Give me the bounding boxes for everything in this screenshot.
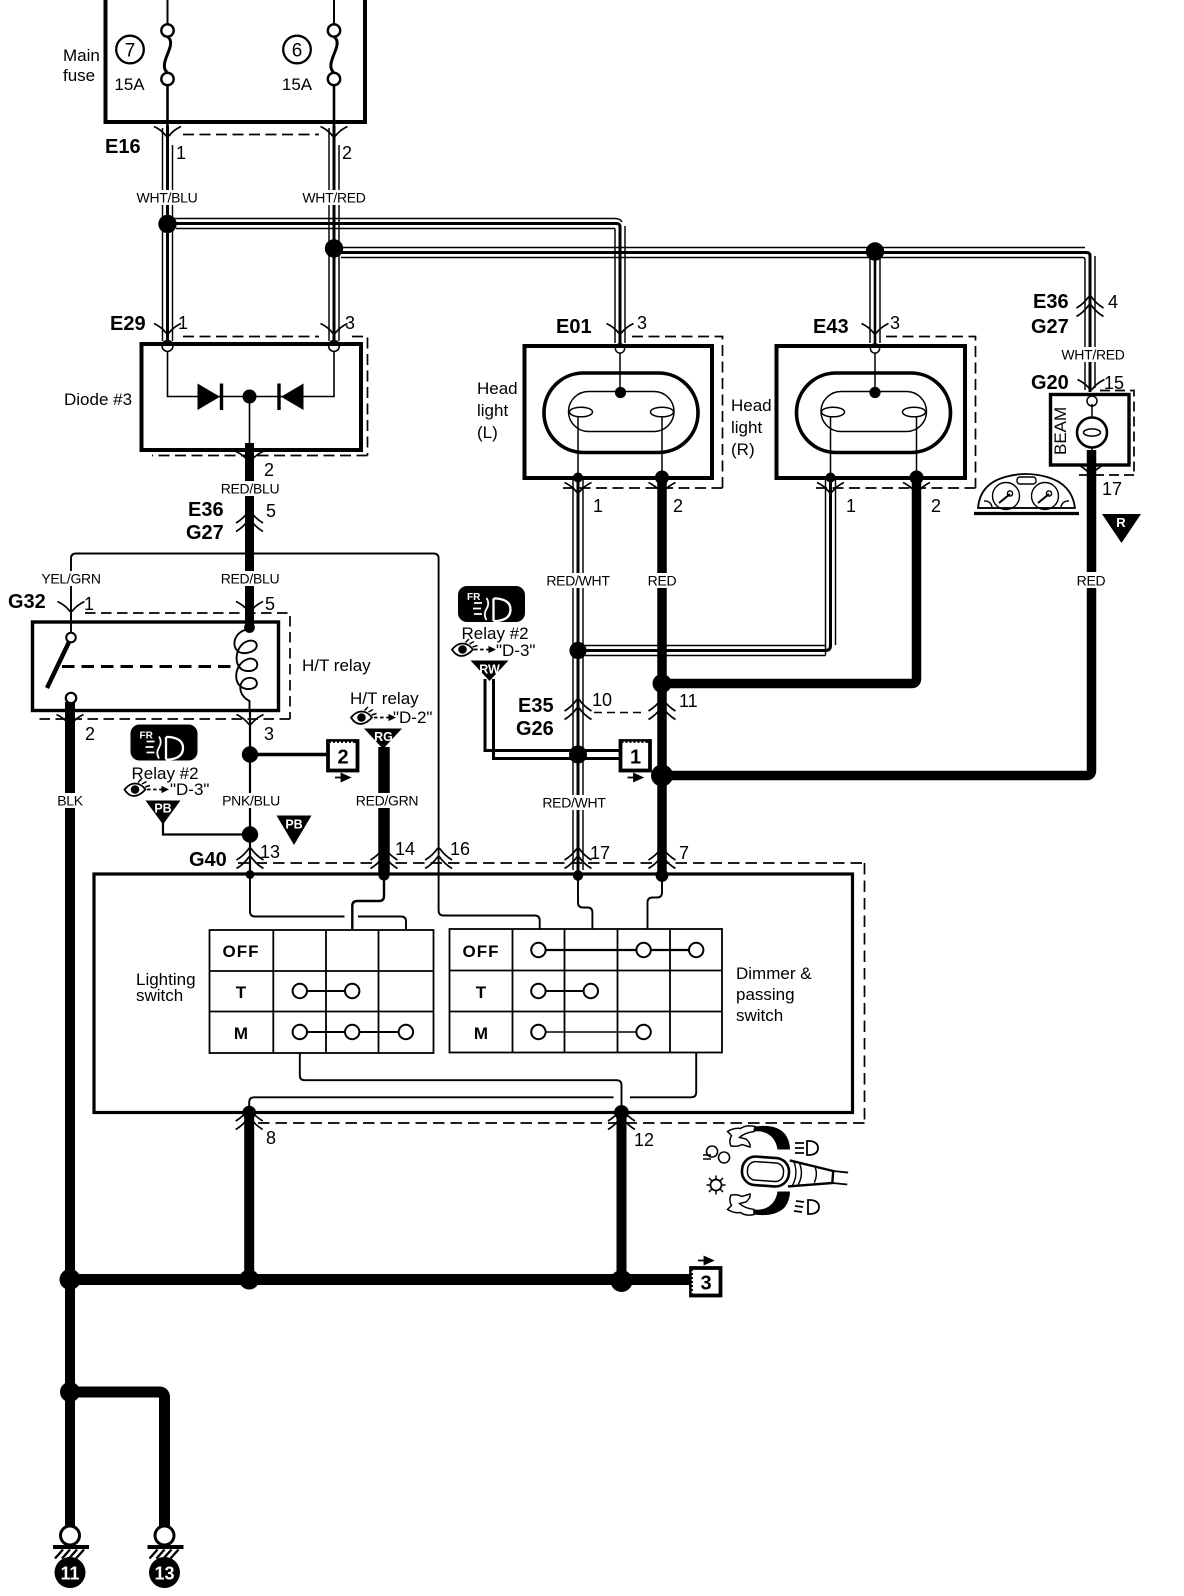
ground branch junction [60,1382,80,1402]
svg-text:1: 1 [178,313,188,333]
diode center junction [243,390,257,404]
svg-text:2: 2 [264,460,274,480]
svg-text:1: 1 [593,496,603,516]
wire WHT/RED vertical E16-2 to E29-3 [329,126,339,344]
svg-text:RW: RW [479,663,500,677]
svg-text:5: 5 [266,501,276,521]
relay coil [234,622,257,709]
svg-text:"D-3": "D-3" [170,780,209,799]
diode D1 [198,384,222,411]
svg-text:RED: RED [1077,573,1106,589]
headlight R dashed box [812,337,976,489]
lighting switch row labels [223,942,260,1043]
svg-text:E29: E29 [110,313,146,335]
E01 pin dots [573,473,583,483]
bus junction pin12 [611,1270,633,1292]
relay mechanical link dashed [62,665,235,668]
Head light (R) label [731,396,772,459]
svg-text:light: light [731,418,762,437]
Dimmer passing switch label [736,964,812,1025]
ground 13 [148,1526,184,1588]
svg-text:15A: 15A [114,75,145,94]
svg-text:4: 4 [1108,292,1118,312]
svg-text:fuse: fuse [63,66,95,85]
junction RED/WHT [569,642,586,659]
svg-text:G27: G27 [1031,316,1069,338]
wire YEL/GRN from G40-16 run [71,554,439,864]
headlight R box E43 [777,346,966,478]
svg-text:light: light [477,401,508,420]
svg-text:WHT/RED: WHT/RED [1061,347,1124,363]
svg-text:RED: RED [648,573,677,589]
svg-text:G26: G26 [516,718,554,740]
combination switch icon [703,1126,849,1215]
svg-text:RED/GRN: RED/GRN [356,793,418,809]
beam bulb [1077,404,1107,452]
dimmer switch row labels [463,942,500,1043]
svg-text:G32: G32 [8,591,46,613]
wire terminal dots at box top [246,870,255,879]
svg-text:YEL/GRN: YEL/GRN [41,571,100,587]
svg-text:E16: E16 [105,136,141,158]
svg-text:switch: switch [136,986,183,1005]
connector G40 top [189,839,865,871]
svg-text:M: M [234,1024,248,1043]
Relay #2 ref right [452,624,535,660]
Main fuse label [63,46,100,85]
svg-text:OFF: OFF [223,942,260,961]
wire pin16 to dimmer col3h [439,863,540,929]
svg-text:E36: E36 [1033,291,1069,313]
junction WHT/RED [325,239,343,257]
svg-text:7: 7 [125,41,136,62]
wire RED/WHT E01-1 down [573,478,583,874]
svg-text:11: 11 [679,691,698,711]
wire RED E01-2 down [657,478,667,874]
headlight R bulb [797,353,951,477]
FR fog badge right [458,586,525,622]
svg-text:RED/BLU: RED/BLU [221,571,280,587]
svg-text:OFF: OFF [463,942,500,961]
main fuse box [104,0,368,122]
svg-text:2: 2 [931,496,941,516]
svg-text:RED/WHT: RED/WHT [542,795,606,811]
E43 pin dots [826,473,836,483]
junction WHT/RED at E43 branch [866,242,884,260]
destination box 2 [328,741,358,781]
svg-text:12: 12 [634,1130,654,1150]
svg-text:1: 1 [84,594,94,614]
destination box 3 [691,1257,721,1296]
svg-text:8: 8 [266,1128,276,1148]
wire pin17 to dimmer col3 [578,877,592,929]
svg-text:H/T relay: H/T relay [302,656,371,675]
pin 12 dot [614,1105,629,1120]
dimmer OFF contacts [531,943,703,957]
junction RED upper [653,674,672,693]
E01 pin forks [565,483,592,493]
Lighting switch label [136,970,196,1005]
svg-text:RED/WHT: RED/WHT [546,573,610,589]
lighting switch T contacts [293,984,360,998]
instrument cluster icon [974,474,1079,514]
ground bus [70,1274,691,1285]
wire fuse 7 feed [167,0,169,25]
diode box pin rings [162,341,173,352]
wire RED/GRN [378,747,390,874]
svg-text:E36: E36 [188,499,224,521]
svg-text:1: 1 [176,143,186,163]
diode #3 box [142,344,362,450]
wire pin 12 to ground bus [617,1112,627,1280]
svg-text:3: 3 [637,313,647,333]
svg-text:WHT/BLU: WHT/BLU [137,190,198,206]
svg-text:H/T relay: H/T relay [350,689,419,708]
svg-text:2: 2 [85,724,95,744]
G32 dashed box [36,613,290,719]
svg-text:passing: passing [736,985,795,1004]
relay pin 2 fork [57,715,84,725]
svg-text:E43: E43 [813,316,849,338]
svg-text:2: 2 [337,747,348,769]
triangle PB left [146,801,181,825]
svg-text:T: T [476,983,487,1002]
svg-text:switch: switch [736,1006,783,1025]
high beam indicator box BEAM [1051,395,1130,466]
ground 11 [53,1526,89,1588]
svg-text:13: 13 [154,1564,174,1584]
svg-text:PNK/BLU: PNK/BLU [222,793,280,809]
svg-text:2: 2 [342,143,352,163]
triangle PB right [277,816,312,846]
diode D2 [279,384,304,411]
svg-text:RG: RG [374,730,393,744]
switch assembly dashed box [253,863,865,1123]
svg-text:5: 5 [265,594,275,614]
wire pin7 to dimmer col4 [648,877,663,929]
svg-text:"D-3": "D-3" [496,641,535,660]
wire RED/WHT crosslink to E43-1 [578,478,836,656]
wire PB link [163,823,250,835]
svg-text:Diode #3: Diode #3 [64,390,132,409]
junction PNK/BLU at 13 [242,826,258,842]
wire fuse 6 feed [333,0,335,25]
dimmer T contacts [531,984,598,998]
wire RW double to box 1 [485,679,621,759]
svg-text:17: 17 [590,843,610,863]
diode #3 dashed box [152,337,368,456]
svg-text:14: 14 [395,839,415,859]
svg-text:3: 3 [345,313,355,333]
junction WHT/BLU [158,215,176,233]
wire PNK/BLU relay pin3 down [249,710,251,874]
connector E29 [110,313,355,337]
lighting switch M contacts [293,1025,414,1039]
svg-text:RED/BLU: RED/BLU [221,481,280,497]
connector G20 [1031,372,1124,394]
svg-text:PB: PB [154,802,171,816]
triangle RW [471,661,509,682]
fuse 7 15A [114,24,173,126]
diode internal wires [168,351,335,448]
destination box 1 [621,741,651,781]
fuse 6 15A [282,24,340,126]
svg-text:G27: G27 [186,522,224,544]
connector E16 [105,127,352,164]
connector G40 bottom pins [236,1109,654,1150]
bus junction left [60,1269,81,1290]
svg-text:11: 11 [60,1564,79,1584]
wire WHT/RED branch to E43 pin 3 [870,252,880,346]
wire WHT/BLU horizontal run to E01 pin 3 [168,219,626,347]
junction pin3 [242,746,258,762]
G20 dashed box [1079,391,1134,476]
svg-text:3: 3 [890,313,900,333]
H/T relay box [33,622,279,711]
FR fog badge left [131,725,198,761]
lighting switch grid [210,930,434,1053]
svg-text:G20: G20 [1031,372,1069,394]
connector E36/G27 left [186,499,279,587]
Relay #2 ref left [125,764,210,799]
connector pin 2 below diode [221,452,280,497]
svg-text:(R): (R) [731,440,755,459]
junction RED/WHT at RW [569,746,587,764]
wire pin 8 to ground bus [244,1112,254,1280]
svg-text:1: 1 [630,747,641,769]
svg-text:E01: E01 [556,316,592,338]
svg-text:WHT/RED: WHT/RED [302,190,365,206]
wire branch to ground 13 [70,1392,165,1526]
wire RED crosslink to E43-2 [662,478,917,684]
svg-text:T: T [236,983,247,1002]
wire WHT/BLU vertical E16-1 to E29-1 [163,126,173,344]
connector E35/G26 [516,690,698,740]
svg-text:Head: Head [731,396,772,415]
dimmer switch grid [450,929,723,1053]
wire dimmer col5 to pin 8 [249,1053,696,1113]
svg-text:17: 17 [1102,479,1122,499]
relay switch contact [47,612,76,703]
svg-text:PB: PB [285,818,302,832]
svg-text:E35: E35 [518,695,554,717]
svg-text:BLK: BLK [57,793,84,809]
wire pin14 to lighting switch col3 [352,877,384,930]
connector G32 [8,571,275,615]
svg-text:10: 10 [592,690,612,710]
svg-text:R: R [1116,515,1126,530]
G20 pin 17 fork [1078,465,1105,475]
svg-text:6: 6 [292,41,303,62]
switch assembly box [94,874,853,1113]
wire RED/BLU diode out [245,443,254,627]
svg-text:7: 7 [679,843,689,863]
dimmer M contacts [531,1025,651,1039]
svg-text:G40: G40 [189,849,227,871]
relay pin 3 fork [237,715,264,725]
svg-text:16: 16 [450,839,470,859]
svg-text:"D-2": "D-2" [393,708,432,727]
wire WHT/RED horizontal run to E36/G27 [334,248,1095,393]
triangle R [1102,514,1141,543]
svg-text:BEAM: BEAM [1051,407,1070,455]
headlight L box E01 [525,346,713,478]
triangle RG [364,729,402,750]
Head light (L) label [477,379,518,442]
bus junction pin8 [239,1270,259,1290]
connector E36/G27 right [1031,291,1125,363]
wire RED from beam indicator down [662,450,1092,776]
svg-text:13: 13 [260,842,280,862]
wire BLK relay pin2 to ground [65,702,75,1526]
svg-text:15A: 15A [282,75,313,94]
headlight L dashed box [558,337,723,489]
svg-text:3: 3 [700,1273,711,1295]
headlight L bulb [544,353,698,477]
svg-text:(L): (L) [477,423,498,442]
svg-text:Main: Main [63,46,100,65]
svg-text:M: M [474,1024,488,1043]
E43 pin forks [817,483,844,493]
junction RED lower [651,765,673,787]
wire to box 2 [250,753,328,757]
wire lighting col2 to pin 12 [300,1053,622,1112]
pin 8 dot [242,1106,256,1120]
svg-text:Head: Head [477,379,518,398]
H/T relay ref [350,689,432,727]
wire pin13 to lighting switch col4 [250,876,406,930]
svg-text:3: 3 [264,724,274,744]
svg-text:Dimmer &: Dimmer & [736,964,812,983]
svg-text:1: 1 [846,496,856,516]
svg-text:2: 2 [673,496,683,516]
